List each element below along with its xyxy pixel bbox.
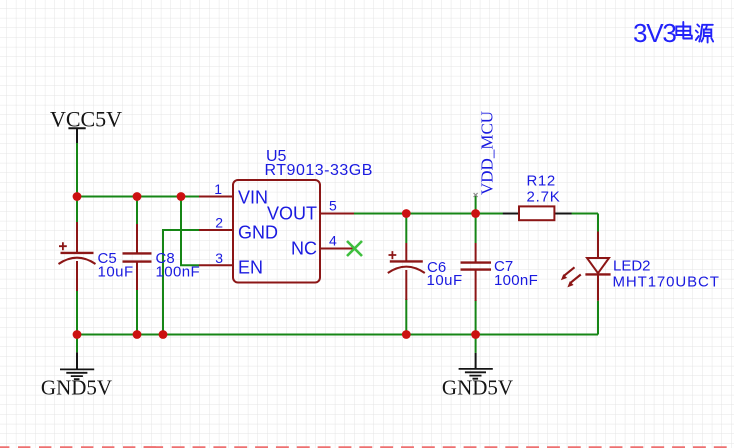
svg-text:10uF: 10uF xyxy=(98,264,134,281)
svg-text:VOUT: VOUT xyxy=(267,204,317,224)
junction GND/C8 xyxy=(133,330,142,339)
U5 pin 2 (GND) xyxy=(199,215,278,243)
U5 pin 5 (VOUT) xyxy=(267,198,354,224)
svg-text:VIN: VIN xyxy=(238,188,268,208)
wire VOUT rail xyxy=(354,213,598,215)
junction VOUT/C6 xyxy=(402,209,411,218)
svg-text:MHT170UBCT: MHT170UBCT xyxy=(613,274,720,291)
wire GND pin2 xyxy=(163,230,199,335)
wire C6 bottom xyxy=(405,299,407,335)
capacitor C7 (100nF) xyxy=(461,243,539,301)
junction VIN/C8 xyxy=(133,192,142,201)
svg-text:R12: R12 xyxy=(527,173,556,190)
junction GND/C6 xyxy=(402,330,411,339)
wire C6 top xyxy=(405,214,407,244)
svg-text:EN: EN xyxy=(238,257,263,277)
wire LED bottom xyxy=(597,301,599,335)
junction VIN/C5 xyxy=(73,192,82,201)
wire C7 top xyxy=(475,214,477,244)
LED LED2 MHT170UBCT xyxy=(561,232,720,301)
svg-text:1: 1 xyxy=(214,181,222,197)
no-connect X on pin 4 xyxy=(347,241,362,256)
junction GND/C5 xyxy=(73,330,82,339)
svg-text:3V3: 3V3 xyxy=(633,18,676,48)
wire VCC5V vertical xyxy=(76,143,78,197)
U5 pin 3 (EN) xyxy=(199,250,263,277)
svg-text:VDD_MCU: VDD_MCU xyxy=(478,111,497,195)
svg-text:LED2: LED2 xyxy=(613,258,651,275)
net label VDD_MCU xyxy=(474,111,497,197)
svg-text:100nF: 100nF xyxy=(494,272,538,289)
power port VCC5V xyxy=(50,107,122,144)
wire EN xyxy=(181,197,199,266)
junction VOUT/C7/VDD xyxy=(471,209,480,218)
wire ground rail xyxy=(77,334,598,336)
wire C8 bottom xyxy=(136,290,138,335)
svg-text:5: 5 xyxy=(329,198,337,214)
capacitor C6 (polarized 10uF) xyxy=(388,243,463,300)
IC U5 RT9013-33GB body xyxy=(233,180,320,283)
wire C7 bottom xyxy=(475,300,477,335)
U5 pin 1 (VIN) xyxy=(199,181,268,208)
junction GND/pin2 wire xyxy=(159,330,168,339)
resistor R12 2.7K xyxy=(503,173,572,221)
wire left GND drop xyxy=(76,335,78,353)
wire C8 top xyxy=(136,197,138,225)
title 3V3电源 xyxy=(633,18,713,48)
wire C5 bottom xyxy=(76,297,78,335)
svg-text:GND5V: GND5V xyxy=(41,376,112,400)
svg-text:3: 3 xyxy=(215,250,223,266)
svg-text:NC: NC xyxy=(291,239,317,259)
svg-text:2.7K: 2.7K xyxy=(527,189,561,206)
svg-text:VCC5V: VCC5V xyxy=(50,107,122,132)
junction GND/C7 xyxy=(471,330,480,339)
svg-text:100nF: 100nF xyxy=(156,264,201,281)
capacitor C5 (polarized 10uF) xyxy=(59,222,134,291)
wire VIN top rail xyxy=(77,196,199,198)
wire C5 top xyxy=(76,197,78,298)
ground symbol GND5V left xyxy=(41,352,112,399)
wire VDD_MCU stub xyxy=(475,196,477,214)
junction VIN/EN xyxy=(177,192,186,201)
svg-text:4: 4 xyxy=(329,233,337,249)
svg-text:GND: GND xyxy=(238,222,278,242)
svg-text:RT9013-33GB: RT9013-33GB xyxy=(265,162,373,179)
svg-text:GND5V: GND5V xyxy=(442,376,513,400)
wire right GND drop xyxy=(475,335,477,353)
svg-text:10uF: 10uF xyxy=(427,272,463,289)
sheet border bottom dashed xyxy=(0,446,734,448)
U5 pin 4 (NC) xyxy=(291,233,354,259)
wire VOUT to LED xyxy=(597,214,599,232)
ground symbol GND5V right xyxy=(442,353,513,400)
svg-text:2: 2 xyxy=(215,215,223,231)
capacitor C8 (100nF) xyxy=(123,224,201,290)
